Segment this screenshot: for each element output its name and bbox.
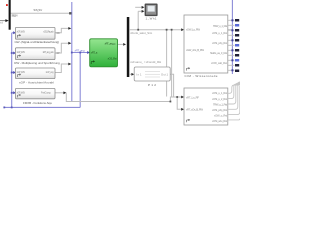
svg-text:SRS_SW: SRS_SW [11,14,18,18]
svg-text:FMXB - Funktions-Squ: FMXB - Funktions-Squ [23,101,52,105]
svg-text:CIM - Wissensrede: CIM - Wissensrede [185,74,218,78]
svg-text:Stahls_as_3_Rst: Stahls_as_3_Rst [210,51,227,55]
svg-text:xOW_salt_Rst: xOW_salt_Rst [211,61,227,65]
svg-text:xGW_xOs_B_RW: xGW_xOs_B_RW [186,48,204,52]
svg-text:RW - Multiplexing und Spurführ: RW - Multiplexing und Spurführung [14,61,60,65]
svg-text:xGP_WSt: xGP_WSt [17,50,25,54]
svg-text:GW - (Signal- und Flankenberec: GW - (Signal- und Flankenberechnung) [14,40,58,44]
svg-text:xOSt_sdu_Rst: xOSt_sdu_Rst [212,119,227,123]
svg-text:xFunk_salut_Sim: xFunk_salut_Sim [130,31,153,35]
svg-text:xGP_ang: xGP_ang [46,70,55,74]
svg-text:xRT_ang: xRT_ang [75,48,85,52]
svg-text:xGP_WSt: xGP_WSt [17,70,25,74]
svg-text:xRT_a: xRT_a [91,50,98,54]
svg-text:xOSt_u_1_Rst: xOSt_u_1_Rst [212,31,227,35]
svg-text:xGP_WSt: xGP_WSt [17,30,25,34]
svg-text:xRT_ang_adu: xRT_ang_adu [43,50,55,54]
svg-text:FmxD_ang: FmxD_ang [41,90,51,94]
svg-text:xRT_xOs_B_RW: xRT_xOs_B_RW [186,108,203,112]
svg-text:xGP_WSt: xGP_WSt [17,90,25,94]
svg-text:SRS_SW: SRS_SW [33,8,42,12]
svg-text:xGP - Ausrichten/Anzahl: xGP - Ausrichten/Anzahl [19,80,54,84]
svg-text:xGW_Lo_RW: xGW_Lo_RW [186,28,200,32]
svg-text:xOW_u_Rst: xOW_u_Rst [214,113,227,117]
svg-text:xRT_Lo_RF: xRT_Lo_RF [186,95,199,99]
svg-text:1_Wh1: 1_Wh1 [146,17,157,21]
svg-text:TRW_u_1_Rst: TRW_u_1_Rst [213,102,227,106]
svg-text:xOSt_pdp_Rst: xOSt_pdp_Rst [212,41,227,45]
svg-text:xRT_ang_c: xRT_ang_c [105,41,117,45]
svg-text:xOS_Rst_adu: xOS_Rst_adu [43,30,54,34]
svg-text:In1: In1 [136,72,142,76]
svg-text:xxFuanu_ / xFondd_RH: xxFuanu_ / xFondd_RH [130,60,161,64]
svg-text:P12: P12 [148,83,156,87]
svg-text:xOS_Rst: xOS_Rst [108,56,117,60]
svg-text:xOSt_pdp_Rst: xOSt_pdp_Rst [212,108,227,112]
svg-text:xOSt_u_1_Rst: xOSt_u_1_Rst [212,91,227,95]
svg-text:xOSt_u_2_Rst: xOSt_u_2_Rst [212,97,227,101]
svg-text:TRW_u_1_Rst: TRW_u_1_Rst [213,24,227,28]
svg-text:Out1: Out1 [161,72,169,76]
